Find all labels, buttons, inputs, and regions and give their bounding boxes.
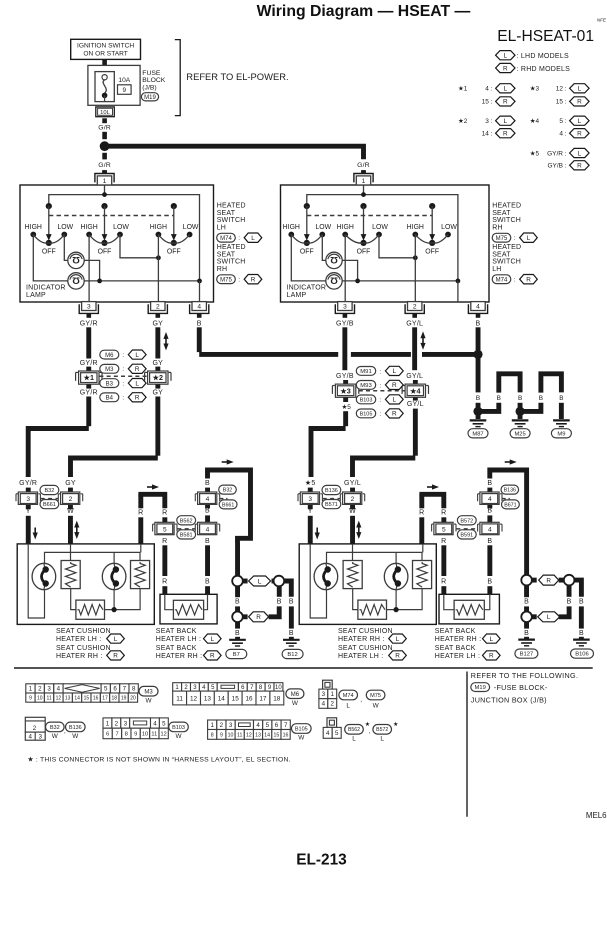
svg-text:LH: LH [217,224,226,231]
wire R staple from cushion box [138,494,143,508]
connector 10L [96,107,115,117]
svg-text:12 :: 12 : [556,86,567,93]
svg-text:SWITCH: SWITCH [217,217,246,224]
svg-text:LOW: LOW [113,224,129,231]
svg-text:B562: B562 [348,727,360,733]
svg-text:HEATER LH :: HEATER LH : [56,636,101,643]
svg-text:LOW: LOW [315,224,331,231]
ignition switch [71,39,141,59]
svg-text:13: 13 [65,695,71,701]
booster resistor [76,600,105,619]
svg-text:1: 1 [106,720,110,727]
svg-text:B: B [235,599,240,606]
svg-text:B: B [524,630,529,637]
svg-text:L: L [258,578,262,585]
connector pin 2 [405,304,424,313]
svg-text:GY/L: GY/L [406,320,423,327]
svg-text:HEATED: HEATED [492,203,521,210]
lamp return wires [342,260,357,281]
connector pin 2 [148,304,167,313]
svg-text:R: R [162,510,167,517]
svg-text:M75: M75 [496,236,508,242]
svg-text:R: R [503,99,508,106]
connector pin 1 [354,174,373,183]
wire ring1 down to ring 3 [235,586,240,597]
svg-text:10A: 10A [118,77,130,84]
in-line connector 4 B136/B671 [480,492,499,504]
svg-text:SEAT: SEAT [217,251,236,258]
svg-text:B: B [487,579,492,586]
in-line connector 4 B32/B661 [198,492,217,504]
booster resistor [358,600,387,619]
svg-text::: : [379,368,381,375]
svg-text:SWITCH: SWITCH [492,259,521,266]
svg-text:SEAT: SEAT [492,251,511,258]
svg-text:,: , [360,697,362,704]
ground ring 3 [232,612,243,623]
svg-text:2: 2 [220,722,224,729]
svg-text:L: L [504,118,508,125]
svg-text:14: 14 [264,732,270,738]
thermostat 2 [395,552,397,564]
svg-text:★ : THIS CONNECTOR IS NOT SHOW: ★ : THIS CONNECTOR IS NOT SHOWN IN “HARN… [27,755,290,763]
heater element 1 [61,561,80,589]
svg-text::: : [238,235,240,242]
wire Y inside box to thermostat 1 [310,544,326,618]
svg-text:R: R [162,538,167,545]
svg-text:BLOCK: BLOCK [142,77,166,84]
svg-text:5: 5 [266,722,270,729]
svg-text:B: B [567,599,572,606]
heated seat switch box [20,185,214,302]
svg-text:OFF: OFF [42,249,56,256]
svg-text:★: ★ [393,721,398,728]
svg-text:L: L [578,118,582,125]
svg-text:R: R [546,577,551,584]
svg-text:HEATER LH :: HEATER LH : [338,653,383,660]
svg-text:9: 9 [134,732,137,738]
svg-text:B: B [487,480,492,487]
svg-text:-FUSE BLOCK-: -FUSE BLOCK- [494,683,548,692]
svg-text:OFF: OFF [167,249,181,256]
svg-text:SEAT BACK: SEAT BACK [156,645,197,652]
wire g2 LOW joins g3 HIGH [379,235,415,258]
connector pinout B562 B572 [327,718,337,728]
wire GY to cushion connector [155,397,160,456]
svg-text:3: 3 [343,304,347,311]
svg-text:★3: ★3 [339,386,350,395]
ground symbol B12 [283,639,300,641]
svg-text:R: R [113,653,118,660]
svg-text:B127: B127 [520,652,534,658]
in-line connector *4 [405,384,425,397]
svg-text:L: L [114,636,118,643]
svg-text:RH: RH [492,224,503,231]
svg-text:SEAT CUSHION: SEAT CUSHION [56,628,111,635]
direction arrow seat back feed [147,486,153,488]
svg-text:B571: B571 [325,502,338,508]
svg-text:12: 12 [246,732,252,738]
separator line above connector section [14,667,593,669]
ground symbol M25 [518,413,523,419]
svg-text:5: 5 [335,730,339,737]
svg-text:B136: B136 [504,488,516,494]
svg-text:M74: M74 [220,236,232,242]
svg-text:3 :: 3 : [485,118,492,125]
svg-text:R: R [395,653,400,660]
svg-text:11: 11 [151,732,157,738]
svg-text:4: 4 [488,496,492,503]
svg-text:6: 6 [106,732,109,738]
svg-text:W: W [349,508,356,515]
wire ring3 to B7 ground [235,622,240,629]
svg-text:2: 2 [330,701,334,708]
svg-text:L: L [251,235,255,242]
svg-text:3: 3 [229,722,233,729]
svg-text:4: 4 [322,701,326,708]
svg-text:B12: B12 [287,652,297,658]
svg-text:L: L [578,150,582,157]
wire GY/R to cushion connector [86,397,91,427]
svg-text:: RHD MODELS: : RHD MODELS [517,66,571,73]
svg-text:M9: M9 [557,431,565,437]
svg-text:SEAT CUSHION: SEAT CUSHION [338,628,393,635]
direction arrow seat back feed [427,486,433,488]
wire g3 HIGH to pin 2 [414,235,416,303]
wire GY/L to right cushion connector [413,409,418,456]
svg-text:(J/B): (J/B) [142,85,156,92]
svg-text:4 :: 4 : [559,131,566,138]
thermostat 2 [113,552,115,564]
in-line connector 2 B32/B661 [61,492,80,504]
heated seat switch box [281,185,490,302]
svg-text:GY/L: GY/L [407,401,424,408]
ground jumper 2 [520,403,541,412]
connector id M74 [217,233,236,242]
svg-text:GY/L: GY/L [406,373,423,380]
wire g2 LOW joins g3 HIGH [120,235,158,258]
svg-text:B661: B661 [222,502,234,508]
svg-text:14: 14 [218,695,226,702]
svg-text:★5: ★5 [530,150,540,157]
svg-text:SEAT: SEAT [492,210,511,217]
svg-text:13: 13 [204,695,212,702]
svg-text:M19: M19 [144,95,156,101]
svg-text:★4: ★4 [530,118,540,125]
svg-text:HIGH: HIGH [25,224,42,231]
svg-text:R: R [162,579,167,586]
svg-text:INDICATOR: INDICATOR [287,284,327,291]
svg-text:L: L [396,636,400,643]
svg-text:L: L [490,636,494,643]
ground ring 1 [232,576,243,587]
svg-text::: : [379,397,381,404]
svg-text:5: 5 [104,686,108,693]
svg-text:4 :: 4 : [485,86,492,93]
svg-text:L: L [504,53,508,60]
svg-text:2: 2 [38,686,42,693]
svg-text:JUNCTION BOX (J/B): JUNCTION BOX (J/B) [471,696,547,705]
svg-text:2: 2 [115,720,119,727]
svg-text:M93: M93 [360,383,372,389]
svg-text:M75: M75 [370,693,381,699]
svg-text:B: B [205,507,210,514]
cushion heater internal bus [327,552,423,563]
in-line connector ids M91 M93 B103 B105 [359,390,406,392]
svg-text:B: B [518,395,522,402]
svg-text:4: 4 [206,496,210,503]
svg-text:W: W [373,703,380,710]
svg-text:MEL6: MEL6 [586,811,607,820]
switch section 3 [429,203,435,209]
svg-text:1: 1 [330,691,334,698]
svg-text:W: W [72,733,79,740]
svg-text:M6: M6 [105,353,114,359]
connector pin 4 [468,304,487,313]
svg-text:HEATED: HEATED [217,244,246,251]
svg-text:B: B [476,320,481,327]
svg-text:R: R [441,510,446,517]
svg-text:OFF: OFF [425,249,439,256]
switch section 3 [171,203,177,209]
svg-text:NFE: NFE [597,18,607,23]
svg-text:R: R [441,579,446,586]
ground ring 2 [274,576,285,587]
svg-text:★: ★ [365,721,370,728]
svg-text:11: 11 [46,695,51,701]
svg-text:HEATER LH :: HEATER LH : [156,636,201,643]
svg-text:15: 15 [84,695,90,701]
svg-text:R: R [503,131,508,138]
svg-text:B105: B105 [295,727,308,733]
in-line connector 2 B136/B571 [343,492,362,504]
svg-text:HEATED: HEATED [217,203,246,210]
svg-text:HEATED: HEATED [492,244,521,251]
svg-text:L: L [211,636,215,643]
seat back heater box [160,594,217,624]
svg-text:L: L [135,380,139,387]
svg-text:Y: Y [308,508,313,515]
svg-text:HEATER RH :: HEATER RH : [435,636,482,643]
ground symbol M87 [470,419,487,421]
wire B to left ground rings [235,543,240,576]
svg-text:R: R [251,277,256,284]
link R to ring 2 right [532,578,537,583]
svg-text:10: 10 [275,685,282,691]
svg-text:B: B [205,579,210,586]
svg-text:GY/R: GY/R [80,389,98,396]
svg-text:HEATER RH :: HEATER RH : [56,653,103,660]
svg-text:4: 4 [153,720,157,727]
svg-text:HEATER RH :: HEATER RH : [338,636,385,643]
svg-text:7: 7 [115,732,118,738]
wire pin 4 ground [199,281,201,302]
svg-text:R: R [210,653,215,660]
connector pinout M74 M75 [323,680,333,689]
svg-text:L: L [380,735,384,742]
svg-text:Ω: Ω [72,254,80,265]
svg-text:M3: M3 [144,689,153,695]
svg-text:LAMP: LAMP [287,292,307,299]
junction dot M25 node [516,407,525,416]
svg-text:R: R [256,614,261,621]
svg-text:B: B [524,599,529,606]
seat back heater element [444,594,454,609]
svg-text:HIGH: HIGH [80,224,97,231]
svg-text:12: 12 [56,695,62,701]
svg-text::: : [122,352,124,359]
ground ring 3 right [521,612,532,623]
svg-text:3: 3 [38,734,42,741]
svg-text:17: 17 [102,695,108,701]
svg-text:Y: Y [26,508,31,515]
svg-text:10: 10 [37,695,43,701]
direction arrow both ways GY [165,338,167,345]
svg-text::: : [514,235,516,242]
svg-text:GY/R: GY/R [80,360,98,367]
svg-text:10: 10 [228,732,234,738]
svg-text:M87: M87 [472,431,483,437]
svg-text:★1: ★1 [83,373,94,382]
svg-text:B32: B32 [223,488,232,494]
svg-text:★3: ★3 [530,86,540,93]
svg-text:4: 4 [256,722,260,729]
fuse block J/B box [88,65,140,105]
svg-text:9: 9 [123,87,127,94]
svg-text:15: 15 [232,695,240,702]
wire to ground M87 [476,413,481,419]
svg-text:14: 14 [74,695,80,701]
svg-text:SWITCH: SWITCH [217,259,246,266]
svg-text:1: 1 [29,686,33,693]
connector id M74 [492,275,511,284]
wire pin 4 ground [457,281,459,302]
svg-text:B562: B562 [180,518,193,524]
connector pin 4 [190,304,209,313]
svg-text:SWITCH: SWITCH [492,217,521,224]
svg-text:B: B [277,599,282,606]
svg-text:5 :: 5 : [559,118,566,125]
in-line connector 5 B562/B581 [177,528,195,530]
legend R = RHD MODELS [496,63,515,72]
svg-text:★4: ★4 [409,386,420,395]
wire R staple from cushion box [419,494,424,508]
svg-text::: : [122,381,124,388]
thermostat 1 [314,563,338,589]
svg-text:R: R [135,366,140,373]
svg-text:B: B [476,395,480,402]
in-line connector 4 B572/B591 [480,522,499,534]
svg-text:B: B [579,599,584,606]
svg-text:OFF: OFF [98,249,112,256]
connector pin 1 [95,174,114,183]
svg-text:2: 2 [351,496,355,503]
svg-text:B103: B103 [172,725,185,731]
svg-text:3: 3 [87,304,91,311]
svg-text:W: W [67,508,74,515]
junction dot ground node [473,407,482,416]
svg-text:LOW: LOW [57,224,73,231]
svg-text:10L: 10L [100,110,110,116]
connector id M75 [217,275,236,284]
svg-text:Ω: Ω [72,275,80,286]
indicator lamp 1 [68,252,84,268]
wire g2 HIGH to pin 3 [344,235,346,303]
wire ring2 to B106 ground [574,580,581,597]
switch feed line from pin 1 [363,185,365,195]
svg-text:SEAT: SEAT [217,210,236,217]
svg-text:7: 7 [123,686,127,693]
svg-text:GY: GY [65,480,76,487]
svg-text:B: B [235,630,240,637]
lamp return wires [84,260,99,281]
svg-text:LOW: LOW [372,224,388,231]
svg-text:GY: GY [152,360,163,367]
svg-text:B: B [205,538,210,545]
legend L = LHD MODELS [496,51,515,60]
svg-text:B: B [497,395,501,402]
svg-text:5: 5 [442,526,446,533]
svg-text:B: B [539,395,543,402]
svg-text:B: B [579,630,584,637]
indicator lamp 2 [326,273,342,289]
svg-text:16: 16 [283,732,289,738]
junction dot on ground bus [473,350,482,359]
svg-text:B: B [559,395,563,402]
svg-text:2: 2 [413,304,417,311]
svg-text:SEAT BACK: SEAT BACK [156,628,197,635]
wire G/R left drop [102,153,107,160]
svg-text:★5: ★5 [342,404,352,411]
svg-text:★2: ★2 [458,118,468,125]
svg-text:7: 7 [284,722,288,729]
svg-text:M19: M19 [475,685,486,691]
svg-text:GY/L: GY/L [344,480,361,487]
heater element 2 [413,561,432,589]
svg-text:4: 4 [197,304,201,311]
svg-text:EL-213: EL-213 [296,852,346,869]
svg-text:GY/R :: GY/R : [547,150,567,157]
svg-text:HIGH: HIGH [150,224,167,231]
svg-text:B: B [205,480,210,487]
svg-text:INDICATOR: INDICATOR [26,284,66,291]
connector id M75 [492,233,511,242]
in-line connector *2 [148,371,168,384]
svg-text:GY/B: GY/B [336,320,354,327]
svg-text:Wiring Diagram — HSEAT —: Wiring Diagram — HSEAT — [257,3,471,20]
svg-text:1: 1 [210,722,214,729]
svg-text:R: R [577,99,582,106]
svg-text:B671: B671 [504,502,516,508]
connector pin 3 [335,304,354,313]
in-line connector *3 [335,384,355,397]
svg-text:B4: B4 [106,396,114,402]
svg-text:14 :: 14 : [482,131,493,138]
svg-text:R: R [503,65,508,72]
svg-text:LOW: LOW [441,224,457,231]
svg-text:15 :: 15 : [556,99,567,106]
svg-text:EL-HSEAT-01: EL-HSEAT-01 [497,28,594,45]
svg-text:3: 3 [26,496,30,503]
svg-text:2: 2 [156,304,160,311]
svg-text:3: 3 [308,496,312,503]
svg-text:W: W [52,733,59,740]
svg-text:L: L [504,86,508,93]
svg-text:GY/B: GY/B [336,373,354,380]
svg-text:B32: B32 [50,725,60,731]
wire g1 LOW to lamp1 [64,235,67,261]
svg-text:3: 3 [47,686,51,693]
